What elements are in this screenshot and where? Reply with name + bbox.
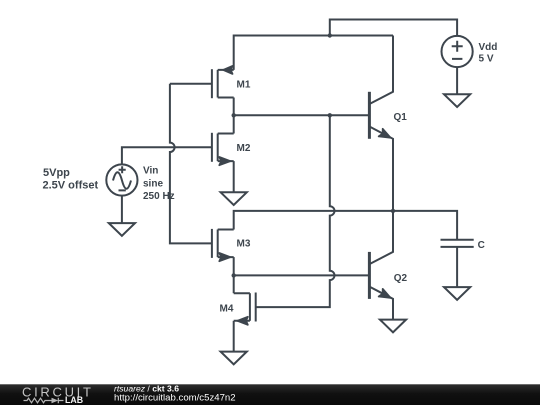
- svg-text:M2: M2: [237, 143, 251, 154]
- svg-text:5 V: 5 V: [479, 54, 494, 65]
- svg-text:Vin: Vin: [143, 166, 158, 177]
- svg-text:Q1: Q1: [394, 112, 408, 123]
- svg-text:Vdd: Vdd: [479, 42, 498, 53]
- svg-text:M1: M1: [237, 80, 251, 91]
- svg-text:M3: M3: [237, 239, 251, 250]
- svg-text:sine: sine: [143, 178, 163, 189]
- svg-text:5Vpp: 5Vpp: [43, 167, 70, 179]
- svg-text:LAB: LAB: [65, 395, 83, 405]
- svg-text:http://circuitlab.com/c5z47n2: http://circuitlab.com/c5z47n2: [114, 393, 236, 404]
- svg-text:2.5V offset: 2.5V offset: [43, 180, 99, 192]
- svg-text:Q2: Q2: [394, 273, 408, 284]
- svg-text:250 Hz: 250 Hz: [143, 191, 175, 202]
- svg-text:C: C: [478, 240, 485, 251]
- svg-text:M4: M4: [220, 304, 234, 315]
